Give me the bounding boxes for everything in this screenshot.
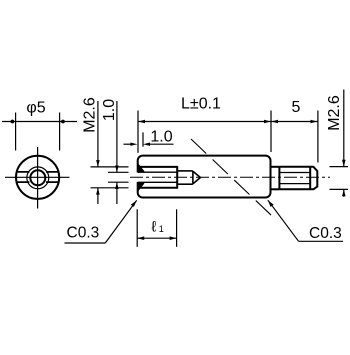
tap drill cone base line (192, 171, 194, 184)
stud neck line top (271, 166, 280, 168)
tapped hole chamfer wedge top (138, 164, 144, 172)
dimension l1 line (137, 237, 176, 239)
stud tip outline (310, 167, 317, 190)
dimension M2.6 right arrow upper (342, 160, 346, 167)
dimension M2.6 right line upper (343, 90, 345, 167)
dimension M2.6 left line upper (97, 101, 99, 167)
tap drill hole line top (177, 170, 193, 172)
note C0.3 right leader arrow (268, 200, 274, 207)
end view thread major circle (27, 167, 49, 189)
dimension M2.6 left arrow upper (96, 160, 100, 167)
tapped hole thread end line (176, 166, 178, 189)
dimension phi5 dot right (61, 120, 65, 124)
end view slot chord lower (17, 181, 59, 183)
dimension L line (138, 121, 271, 123)
end view horizontal centerline (5, 176, 70, 178)
dimension M2.6 left tick upper (91, 166, 129, 168)
dimension 1.0 chamfer arrow right (143, 143, 150, 146)
tapped hole thread minor line top (139, 171, 177, 173)
tapped hole thread major line top (139, 166, 177, 168)
note C0.3 left leader (105, 200, 136, 243)
tap drill cone point (193, 171, 201, 184)
dimension 1.0 left tick lower (108, 181, 129, 183)
side view centerline (130, 176, 330, 178)
svg-text:ℓ: ℓ (152, 219, 157, 236)
dimension M2.6 right tick lower (330, 188, 349, 190)
dimension 5 line (271, 121, 318, 123)
dimension 1.0 chamfer arrow left (130, 143, 137, 146)
svg-text:φ5: φ5 (26, 99, 45, 116)
dimension L arrow right (264, 120, 271, 124)
dimension L extension line left (137, 111, 139, 153)
dimension 1.0 left arrow lower (115, 182, 119, 189)
svg-text:1: 1 (159, 224, 164, 234)
dimension l1 extension line left (136, 209, 138, 247)
dimension L arrow left (138, 120, 145, 124)
body outline (138, 156, 271, 198)
end view outer circle (body ø5) (16, 156, 59, 199)
tapped hole thread major line bottom (139, 187, 177, 189)
dimension M2.6 left tick lower (91, 187, 129, 189)
dimension 1.0 left tick upper (108, 171, 129, 173)
end view thread hole circle (30, 170, 45, 185)
svg-text:M2.6: M2.6 (82, 97, 99, 133)
note C0.3 left leader arrow (131, 200, 137, 207)
svg-text:1.0: 1.0 (101, 99, 118, 121)
dimension l1 arrow right (170, 236, 177, 240)
dimension M2.6 right tick upper (330, 166, 349, 168)
dimension 5 arrow left (271, 120, 278, 124)
svg-text:M2.6: M2.6 (326, 95, 343, 131)
stud neck line bottom (271, 188, 280, 190)
dimension 1.0 chamfer line left part (124, 143, 132, 145)
dimension phi5 dot left (11, 120, 15, 124)
dimension M2.6 left line lower (97, 188, 99, 204)
note C0.3 right leader (268, 200, 299, 241)
dimension 5 arrow right (311, 120, 318, 124)
tapped hole chamfer wedge bottom (138, 182, 144, 190)
dimension 1.0 left line upper (116, 101, 118, 172)
dimension phi5 extension line right (59, 113, 61, 151)
dimension l1 arrow left (137, 236, 144, 240)
svg-text:L±0.1: L±0.1 (181, 95, 221, 112)
stud thread minor line top (280, 172, 310, 174)
svg-text:1.0: 1.0 (150, 128, 172, 145)
stud thread major line top (279, 166, 310, 168)
dimension 1.0 chamfer line right part (149, 143, 173, 145)
note C0.3 right underline (299, 240, 344, 242)
dimension l1 extension line right (176, 209, 178, 247)
dimension M2.6 left arrow lower (96, 188, 100, 195)
dimension phi5 line (2, 121, 77, 123)
dimension 1.0 left line lower (116, 182, 118, 204)
tap drill hole line bottom (177, 183, 193, 185)
svg-text:C0.3: C0.3 (67, 224, 100, 241)
stud chamfer line (309, 167, 311, 190)
dimension phi5 extension line left (15, 113, 17, 151)
dimension 5 extension line right (317, 111, 319, 163)
note C0.3 left underline (65, 242, 106, 244)
dimension 1.0 chamfer extension line (142, 132, 144, 146)
dimension L extension line right (270, 111, 272, 153)
stud thread major line bottom (279, 188, 310, 190)
dimension M2.6 right arrow lower (342, 189, 346, 196)
dimension 1.0 left arrow upper (115, 166, 119, 173)
svg-text:C0.3: C0.3 (309, 225, 342, 242)
tapped hole thread minor line bottom (139, 181, 177, 183)
stud thread minor line bottom (280, 183, 310, 185)
dimension M2.6 right line lower (343, 189, 345, 196)
variable length diagonal dashed line (191, 139, 271, 215)
end view vertical centerline (37, 147, 39, 209)
svg-text:5: 5 (292, 99, 301, 116)
stud thread start line (278, 167, 280, 190)
end view slot chord upper (17, 171, 59, 173)
